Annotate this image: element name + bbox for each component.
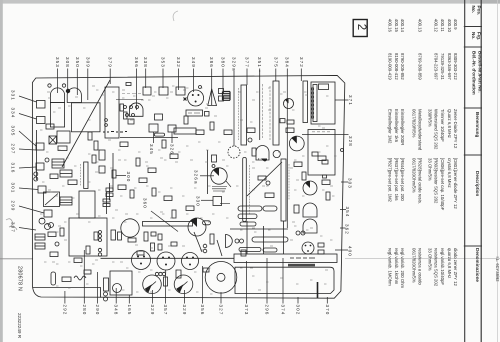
svg-text:300: 300: [126, 172, 131, 183]
svg-text:380: 380: [221, 57, 226, 68]
svg-text:8790-205-852: 8790-205-852: [400, 53, 405, 80]
svg-text:377: 377: [245, 57, 250, 68]
svg-text:400.14: 400.14: [400, 19, 405, 33]
svg-text:374: 374: [281, 305, 286, 316]
svg-text:345: 345: [149, 144, 154, 155]
svg-text:329: 329: [182, 305, 187, 316]
svg-text:375: 375: [273, 57, 278, 68]
svg-text:No.: No.: [471, 32, 476, 39]
svg-text:297: 297: [11, 144, 16, 155]
svg-text:[D801]zener-diode ZPY 12: [D801]zener-diode ZPY 12: [453, 158, 458, 209]
svg-text:384: 384: [284, 57, 289, 68]
svg-text:328: 328: [348, 136, 353, 147]
svg-text:366: 366: [134, 57, 139, 68]
svg-text:Description: Description: [475, 171, 480, 196]
svg-text:372: 372: [299, 57, 304, 68]
svg-text:349: 349: [191, 57, 196, 68]
svg-text:[R844]pre-set pot. 200: [R844]pre-set pot. 200: [400, 158, 405, 201]
svg-text:303: 303: [348, 178, 353, 189]
svg-text:8704-223-697: 8704-223-697: [434, 53, 439, 80]
svg-text:I.L. 6CY38/92: I.L. 6CY38/92: [495, 257, 500, 283]
svg-text:296: 296: [265, 305, 270, 316]
svg-text:348: 348: [114, 305, 119, 316]
svg-text:[C806]pre-set cap. 10/40pF: [C806]pre-set cap. 10/40pF: [440, 158, 445, 211]
svg-text:2: 2: [355, 24, 367, 30]
svg-text:292: 292: [62, 305, 67, 316]
svg-text:Einstellregler 1k6: Einstellregler 1k6: [394, 109, 399, 143]
svg-text:305: 305: [11, 126, 16, 137]
svg-text:350: 350: [75, 57, 80, 68]
svg-text:386: 386: [209, 57, 214, 68]
svg-text:280678 N: 280678 N: [17, 266, 23, 291]
svg-text:regl.variab. 1kOhm: regl.variab. 1kOhm: [394, 248, 399, 285]
svg-text:400: 400: [347, 246, 352, 257]
svg-text:8150-008-412: 8150-008-412: [394, 53, 399, 80]
svg-text:Bél.-Nr. d'ordination: Bél.-Nr. d'ordination: [472, 51, 477, 95]
svg-text:33 Ohm/5%: 33 Ohm/5%: [428, 158, 433, 181]
svg-text:Metalloxydwiderstand: Metalloxydwiderstand: [418, 109, 423, 151]
svg-text:331: 331: [11, 90, 16, 101]
svg-text:Einstellregler 1M2: Einstellregler 1M2: [388, 109, 393, 144]
svg-text:330: 330: [196, 196, 201, 207]
svg-text:301: 301: [11, 183, 16, 194]
svg-text:Benennung: Benennung: [475, 112, 480, 137]
svg-text:No.: No.: [471, 6, 476, 13]
svg-text:diodo zener ZPY 12: diodo zener ZPY 12: [453, 248, 458, 287]
svg-text:362: 362: [344, 224, 349, 235]
svg-text:0617/820Ohm/5%: 0617/820Ohm/5%: [412, 158, 417, 193]
svg-text:[R803]resistor SQS 202: [R803]resistor SQS 202: [434, 158, 439, 204]
svg-text:371: 371: [348, 95, 353, 106]
svg-text:8190-009-419: 8190-009-419: [388, 53, 393, 80]
svg-text:22322249 R: 22322249 R: [17, 313, 22, 339]
svg-text:329: 329: [150, 305, 155, 316]
svg-text:329a: 329a: [232, 57, 237, 72]
svg-text:334: 334: [11, 108, 16, 119]
svg-text:326a: 326a: [194, 170, 199, 185]
svg-text:quarzo 6,8 MHz: quarzo 6,8 MHz: [447, 248, 452, 278]
svg-text:316: 316: [11, 163, 16, 174]
svg-text:Trimmer 10/40pF: Trimmer 10/40pF: [440, 109, 445, 142]
svg-text:0617/820Ohm/5%: 0617/820Ohm/5%: [412, 248, 417, 283]
svg-text:338: 338: [143, 57, 148, 68]
svg-text:308: 308: [65, 57, 70, 68]
svg-text:[R827]pre-set pot. 1M2: [R827]pre-set pot. 1M2: [388, 158, 393, 203]
svg-text:326: 326: [170, 144, 175, 155]
svg-text:354: 354: [345, 207, 350, 218]
svg-text:79139-325-31: 79139-325-31: [440, 53, 445, 80]
svg-text:0617/820R/5%: 0617/820R/5%: [412, 109, 417, 138]
svg-text:8363-346-697: 8363-346-697: [447, 53, 452, 80]
svg-text:400.10: 400.10: [447, 19, 452, 33]
svg-text:299: 299: [11, 201, 16, 212]
svg-text:302: 302: [296, 305, 301, 316]
svg-text:regl.variab.10/40pF: regl.variab.10/40pF: [440, 248, 445, 285]
svg-text:351: 351: [257, 57, 262, 68]
svg-text:[R828]metal oxide resis.: [R828]metal oxide resis.: [418, 158, 423, 204]
svg-text:Quarz 6,8 MHz: Quarz 6,8 MHz: [447, 109, 452, 138]
svg-text:327: 327: [219, 305, 224, 316]
svg-text:307: 307: [11, 222, 16, 233]
svg-text:400.12: 400.12: [434, 19, 439, 33]
svg-text:360: 360: [143, 198, 148, 209]
svg-text:373: 373: [244, 305, 249, 316]
svg-text:Einstellregler 200R: Einstellregler 200R: [400, 109, 405, 145]
svg-text:8309-303-212: 8309-303-212: [453, 53, 458, 80]
svg-text:resistenza a ossido: resistenza a ossido: [418, 248, 423, 285]
svg-text:379: 379: [108, 57, 113, 68]
svg-text:400.15: 400.15: [394, 19, 399, 33]
svg-text:353: 353: [55, 57, 60, 68]
svg-text:resistenza SQS 202: resistenza SQS 202: [434, 248, 439, 287]
svg-text:crystal 6,8 MHz: crystal 6,8 MHz: [447, 158, 452, 188]
svg-text:Widerstand SQS 202: Widerstand SQS 202: [434, 109, 439, 150]
svg-text:Denominazione: Denominazione: [475, 248, 480, 282]
svg-text:400.11: 400.11: [440, 19, 445, 32]
svg-text:330R/5%: 330R/5%: [428, 109, 433, 127]
svg-text:Zener-Diode ZPY 12: Zener-Diode ZPY 12: [453, 109, 458, 149]
svg-text:356: 356: [200, 305, 205, 316]
svg-text:[R837]pre-set pot. 1k6: [R837]pre-set pot. 1k6: [394, 158, 399, 201]
svg-text:353: 353: [161, 57, 166, 68]
svg-text:33 Ohm/5%: 33 Ohm/5%: [428, 248, 433, 271]
svg-text:8769-380-859: 8769-380-859: [418, 53, 423, 80]
svg-text:332: 332: [176, 57, 181, 68]
svg-text:280: 280: [82, 305, 87, 316]
svg-text:165: 165: [127, 305, 132, 316]
svg-text:357: 357: [163, 305, 168, 316]
svg-text:370: 370: [325, 305, 330, 316]
svg-text:Bestell-Nr./Part No.: Bestell-Nr./Part No.: [477, 51, 482, 93]
svg-text:400.16: 400.16: [388, 19, 393, 33]
svg-text:309: 309: [85, 57, 90, 68]
svg-text:400.13: 400.13: [418, 19, 423, 33]
svg-text:regl.variab. 1MOhm: regl.variab. 1MOhm: [388, 248, 393, 286]
svg-text:290: 290: [95, 305, 100, 316]
svg-text:regl.variab. 200 Ohm: regl.variab. 200 Ohm: [400, 248, 405, 289]
svg-text:400.9: 400.9: [453, 19, 458, 30]
